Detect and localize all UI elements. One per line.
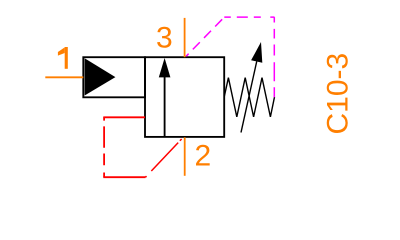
svg-text:C10-3: C10-3 (321, 53, 354, 135)
svg-text:2: 2 (195, 140, 212, 173)
svg-text:3: 3 (156, 22, 173, 55)
